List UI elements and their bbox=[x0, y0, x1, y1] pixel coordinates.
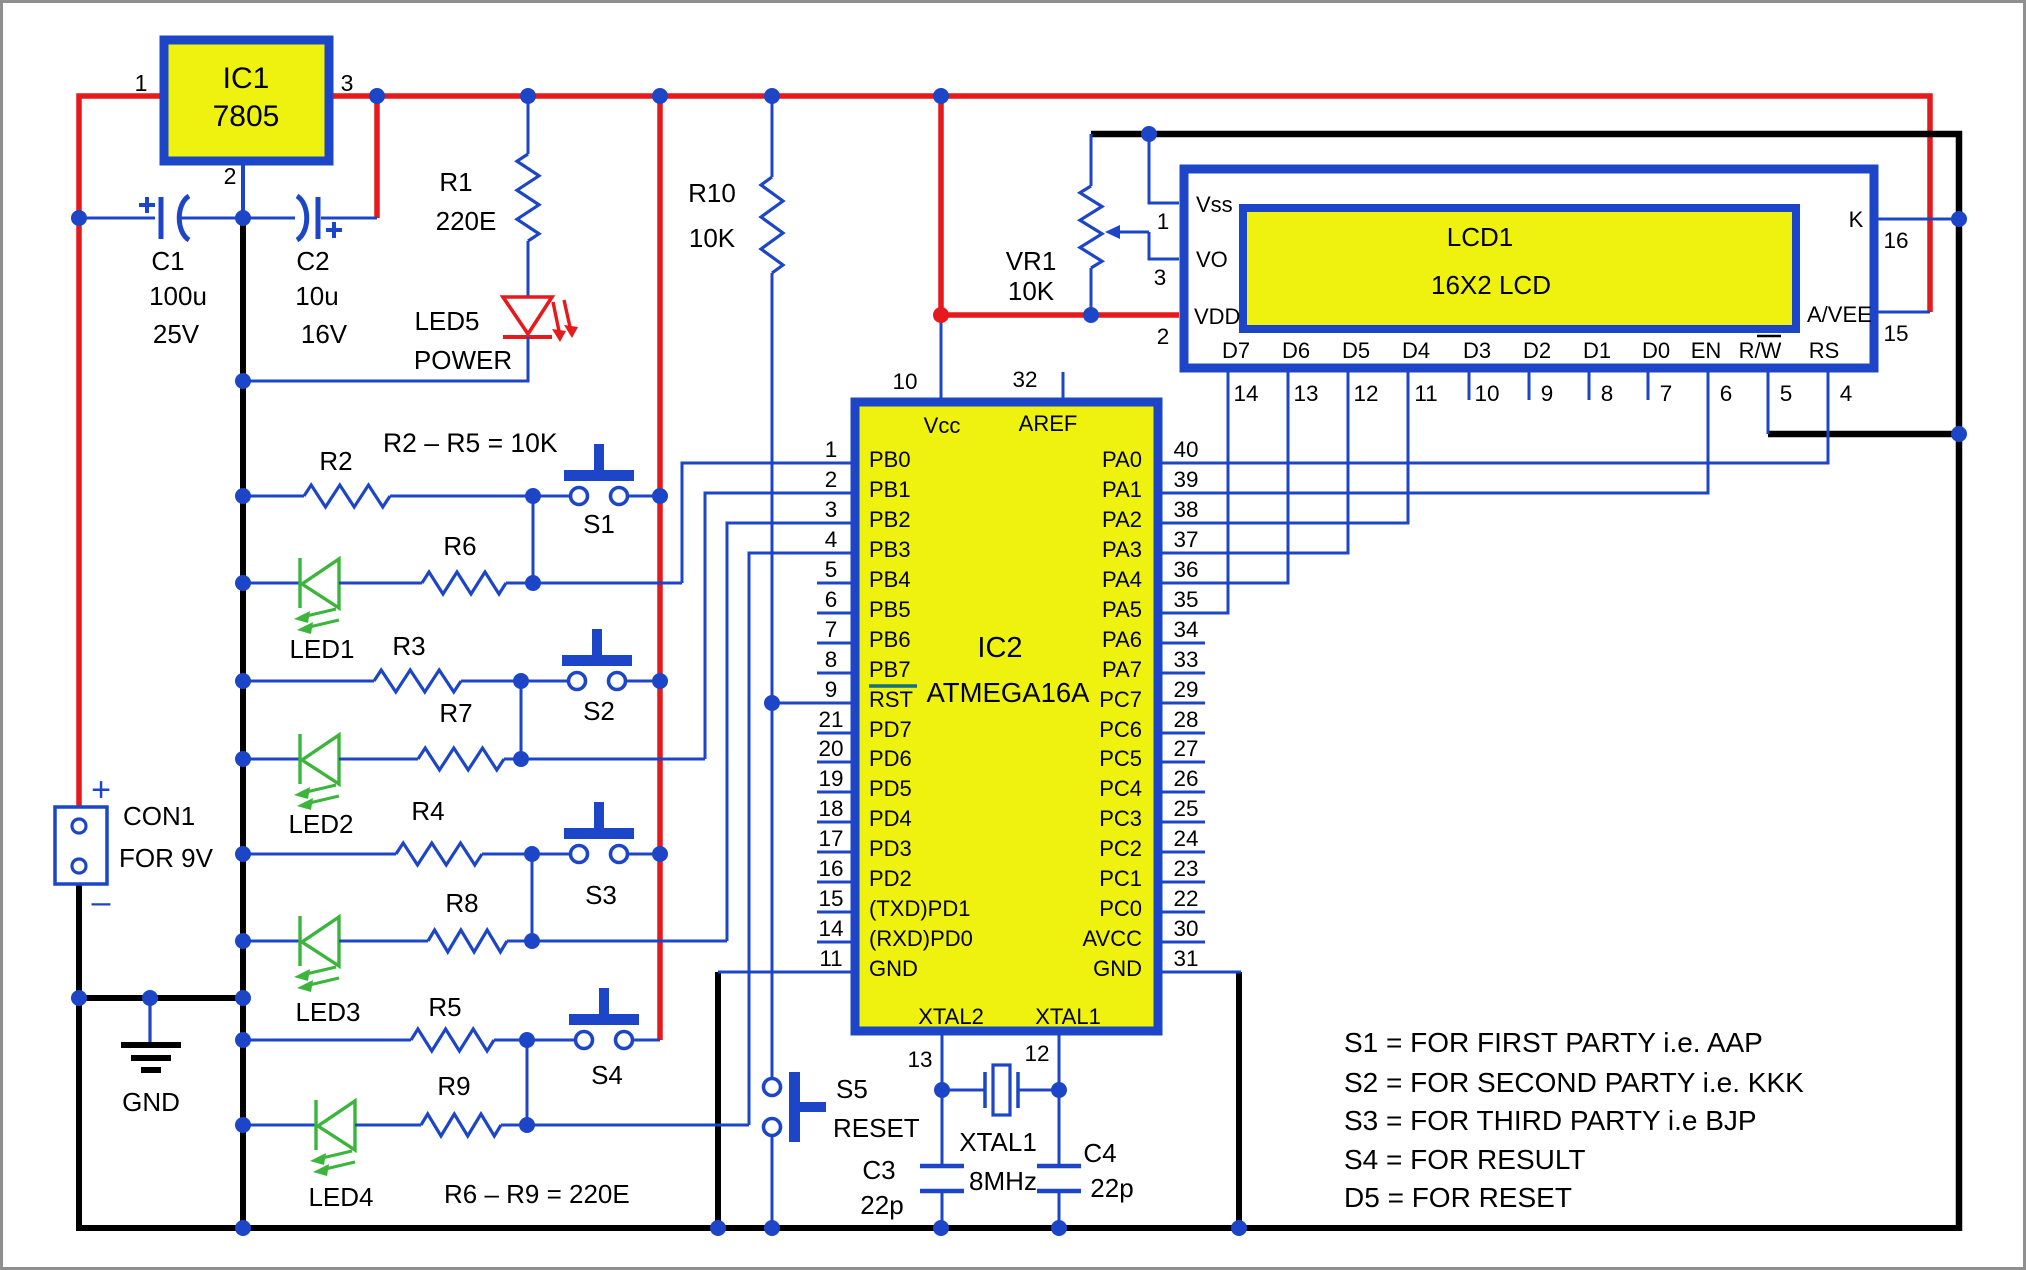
node dots crystal bbox=[934, 1082, 950, 1098]
svg-text:20: 20 bbox=[818, 736, 843, 761]
wire C2 to +5V bbox=[374, 96, 380, 218]
svg-text:PA2: PA2 bbox=[1102, 507, 1142, 532]
svg-text:15: 15 bbox=[1883, 321, 1908, 346]
svg-text:16: 16 bbox=[818, 856, 843, 881]
wire LCD D1 stub bbox=[1588, 368, 1591, 400]
svg-text:D2: D2 bbox=[1523, 338, 1551, 363]
wire LCD D3 stub bbox=[1468, 368, 1471, 400]
svg-text:18: 18 bbox=[818, 796, 843, 821]
svg-text:39: 39 bbox=[1173, 467, 1198, 492]
svg-text:15: 15 bbox=[818, 886, 843, 911]
svg-text:38: 38 bbox=[1173, 497, 1198, 522]
wire LCD D4 to PA2 bbox=[1158, 368, 1408, 523]
resistor R8 220E bbox=[339, 888, 727, 952]
svg-text:22p: 22p bbox=[1090, 1173, 1133, 1203]
svg-text:C4: C4 bbox=[1083, 1138, 1116, 1168]
svg-text:7: 7 bbox=[825, 617, 838, 642]
svg-text:EN: EN bbox=[1691, 338, 1722, 363]
svg-text:4: 4 bbox=[825, 527, 838, 552]
wire S2 junction down bbox=[520, 681, 523, 759]
svg-text:PC2: PC2 bbox=[1099, 836, 1142, 861]
wire R10 to RST and S5 bbox=[771, 273, 774, 1079]
wire IC1 pin2 bbox=[241, 161, 245, 218]
svg-text:30: 30 bbox=[1173, 916, 1198, 941]
wire S5 to ground bbox=[771, 1136, 774, 1228]
wire LCD D6 to PA4 bbox=[1158, 368, 1288, 583]
svg-text:PD6: PD6 bbox=[869, 746, 912, 771]
wire LCD D7 to PA5 bbox=[1158, 368, 1228, 613]
wire RST pin9 bbox=[772, 702, 855, 705]
wire LCD EN to PA1 bbox=[1158, 368, 1708, 493]
wire IC2 GND pin31 down bbox=[1236, 972, 1242, 1228]
svg-text:25: 25 bbox=[1173, 796, 1198, 821]
wire LCD R/W down to ground wire bbox=[1767, 368, 1770, 434]
node dots on +5V rail bbox=[369, 88, 949, 104]
wire AREF pin32 bbox=[1062, 372, 1065, 402]
svg-text:D6: D6 bbox=[1282, 338, 1310, 363]
svg-text:PC4: PC4 bbox=[1099, 776, 1142, 801]
svg-text:R1: R1 bbox=[439, 167, 472, 197]
svg-text:PC0: PC0 bbox=[1099, 896, 1142, 921]
svg-text:8: 8 bbox=[1601, 381, 1614, 406]
switch S1 bbox=[564, 444, 660, 539]
wire LCD D0 stub bbox=[1647, 368, 1650, 400]
svg-text:POWER: POWER bbox=[414, 345, 512, 375]
resistor R4 10K bbox=[243, 796, 569, 865]
svg-text:A/VEE: A/VEE bbox=[1807, 302, 1872, 327]
svg-text:27: 27 bbox=[1173, 736, 1198, 761]
svg-text:10u: 10u bbox=[295, 281, 338, 311]
wire LED5 to GND bus bbox=[243, 337, 528, 381]
svg-text:Vss: Vss bbox=[1196, 192, 1233, 217]
capacitor C4 22p bbox=[1037, 1090, 1134, 1228]
wire PB1 to S2/R7 junction bbox=[705, 493, 855, 759]
svg-text:LED2: LED2 bbox=[288, 809, 353, 839]
svg-text:16V: 16V bbox=[301, 319, 348, 349]
svg-text:LED3: LED3 bbox=[295, 997, 360, 1027]
svg-text:13: 13 bbox=[1293, 381, 1318, 406]
svg-text:IC2: IC2 bbox=[977, 632, 1022, 664]
svg-text:S2: S2 bbox=[583, 696, 615, 726]
svg-text:21: 21 bbox=[818, 707, 843, 732]
wire C1/C2 row bbox=[79, 217, 377, 220]
svg-text:11: 11 bbox=[819, 946, 842, 971]
svg-text:LED1: LED1 bbox=[289, 634, 354, 664]
svg-text:10: 10 bbox=[892, 369, 917, 394]
wire GND bus vertical bbox=[240, 215, 246, 1231]
svg-text:R4: R4 bbox=[411, 796, 444, 826]
svg-text:R/W: R/W bbox=[1739, 338, 1782, 363]
svg-text:1: 1 bbox=[1157, 209, 1170, 234]
svg-text:36: 36 bbox=[1173, 557, 1198, 582]
svg-text:PA6: PA6 bbox=[1102, 627, 1142, 652]
IC2 unconnected left pin stubs bbox=[817, 583, 855, 942]
wire R1 to LED5 bbox=[527, 241, 530, 297]
wire +5V feed to switches bbox=[657, 96, 663, 1040]
svg-text:S2 = FOR SECOND PARTY i.e. KK: S2 = FOR SECOND PARTY i.e. KKK bbox=[1344, 1067, 1804, 1098]
svg-text:PB4: PB4 bbox=[869, 567, 911, 592]
wire LCD D5 to PA3 bbox=[1158, 368, 1348, 553]
wire PB3 to S4/R9 junction bbox=[749, 553, 855, 1125]
svg-text:S4: S4 bbox=[591, 1060, 623, 1090]
svg-text:8MHz: 8MHz bbox=[969, 1166, 1037, 1196]
capacitor C1 100u 25V bbox=[139, 196, 207, 349]
switch S3 bbox=[564, 802, 660, 910]
svg-text:PC7: PC7 bbox=[1099, 687, 1142, 712]
LED LED5 POWER (red) bbox=[414, 297, 578, 375]
capacitor C2 10u 16V bbox=[295, 196, 348, 349]
svg-text:3: 3 bbox=[341, 70, 354, 96]
svg-text:PA5: PA5 bbox=[1102, 597, 1142, 622]
switch S5 RESET bbox=[764, 1072, 920, 1143]
wire R1 top bbox=[527, 96, 530, 154]
wire R10 top bbox=[771, 96, 774, 177]
svg-text:R9: R9 bbox=[437, 1071, 470, 1101]
svg-text:100u: 100u bbox=[149, 281, 207, 311]
IC2 left pin names and numbers bbox=[818, 437, 972, 981]
svg-text:PD7: PD7 bbox=[869, 717, 912, 742]
svg-text:ATMEGA16A: ATMEGA16A bbox=[926, 677, 1090, 708]
svg-text:D1: D1 bbox=[1583, 338, 1611, 363]
wire IC2 GND pin31 bbox=[1158, 971, 1241, 974]
svg-text:16X2 LCD: 16X2 LCD bbox=[1431, 270, 1551, 300]
svg-text:40: 40 bbox=[1173, 437, 1198, 462]
svg-text:22p: 22p bbox=[860, 1190, 903, 1220]
svg-text:D3: D3 bbox=[1463, 338, 1491, 363]
svg-text:+: + bbox=[91, 771, 111, 809]
resistor R6 220E bbox=[339, 531, 682, 594]
svg-text:S1: S1 bbox=[583, 509, 615, 539]
svg-text:31: 31 bbox=[1173, 946, 1198, 971]
resistor R7 220E bbox=[339, 698, 705, 770]
svg-text:32: 32 bbox=[1012, 367, 1037, 392]
node dots power and lcd bbox=[933, 126, 1967, 442]
wire VR1 bottom to VDD rail bbox=[1090, 268, 1093, 315]
svg-text:10: 10 bbox=[1474, 381, 1499, 406]
svg-text:1: 1 bbox=[825, 437, 838, 462]
svg-text:PB1: PB1 bbox=[869, 477, 911, 502]
svg-text:C2: C2 bbox=[296, 246, 329, 276]
wire +5V to Vcc and LCD VDD bbox=[941, 96, 1179, 315]
wire LCD A/VEE to +5V bbox=[1874, 311, 1930, 314]
svg-text:PA7: PA7 bbox=[1102, 657, 1142, 682]
svg-text:16: 16 bbox=[1883, 228, 1908, 253]
svg-text:PC5: PC5 bbox=[1099, 746, 1142, 771]
svg-text:C3: C3 bbox=[862, 1155, 895, 1185]
IC2 unconnected right pin stubs bbox=[1158, 643, 1205, 942]
wire XTAL1 pin12 bbox=[1058, 1031, 1061, 1090]
connector CON1 FOR 9V bbox=[55, 771, 214, 921]
svg-text:S4 = FOR RESULT: S4 = FOR RESULT bbox=[1344, 1144, 1585, 1175]
svg-text:PD3: PD3 bbox=[869, 836, 912, 861]
svg-text:3: 3 bbox=[825, 497, 838, 522]
svg-text:1: 1 bbox=[135, 70, 148, 96]
svg-text:R8: R8 bbox=[445, 888, 478, 918]
svg-text:R7: R7 bbox=[439, 698, 472, 728]
svg-text:Vcc: Vcc bbox=[924, 413, 961, 438]
node dots GND bus bbox=[71, 210, 251, 1236]
svg-text:D5 = FOR RESET: D5 = FOR RESET bbox=[1344, 1182, 1572, 1213]
LED LED1 bbox=[243, 558, 355, 664]
wire LCD RS to PA0 bbox=[1158, 368, 1828, 463]
svg-text:13: 13 bbox=[907, 1047, 932, 1072]
resistor R2 10K bbox=[243, 446, 569, 507]
capacitor C3 22p bbox=[860, 1090, 964, 1228]
resistor R5 10K bbox=[243, 992, 574, 1051]
svg-text:PB5: PB5 bbox=[869, 597, 911, 622]
svg-text:XTAL1: XTAL1 bbox=[1035, 1004, 1101, 1029]
svg-text:PC6: PC6 bbox=[1099, 717, 1142, 742]
svg-text:D0: D0 bbox=[1642, 338, 1670, 363]
svg-text:RST: RST bbox=[869, 687, 913, 712]
wire LCD top ground bbox=[1091, 134, 1959, 1231]
svg-text:S5: S5 bbox=[836, 1074, 868, 1104]
svg-text:S3 = FOR THIRD PARTY i.e BJP: S3 = FOR THIRD PARTY i.e BJP bbox=[1344, 1105, 1757, 1136]
svg-text:S1 = FOR FIRST PARTY i.e. AAP: S1 = FOR FIRST PARTY i.e. AAP bbox=[1344, 1027, 1763, 1058]
wire IC2 GND pin11 bbox=[718, 971, 855, 974]
svg-text:GND: GND bbox=[1093, 956, 1142, 981]
svg-text:PA3: PA3 bbox=[1102, 537, 1142, 562]
crystal XTAL1 8MHz bbox=[942, 1065, 1059, 1196]
svg-text:FOR 9V: FOR 9V bbox=[119, 843, 214, 873]
svg-text:PB6: PB6 bbox=[869, 627, 911, 652]
legend text bbox=[1344, 1027, 1804, 1213]
wire S1 junction down bbox=[532, 496, 535, 583]
svg-text:8: 8 bbox=[825, 647, 838, 672]
svg-text:19: 19 bbox=[818, 766, 843, 791]
switch S2 bbox=[562, 629, 660, 726]
svg-text:10K: 10K bbox=[689, 223, 736, 253]
svg-text:LED4: LED4 bbox=[308, 1182, 373, 1212]
svg-text:PD5: PD5 bbox=[869, 776, 912, 801]
wire XTAL2 pin13 bbox=[941, 1031, 944, 1090]
resistor R3 10K bbox=[243, 631, 567, 692]
wire LCD D2 stub bbox=[1528, 368, 1531, 400]
svg-text:S3: S3 bbox=[585, 880, 617, 910]
wire CON1 minus to bottom rail bbox=[79, 884, 1959, 1228]
svg-text:PC1: PC1 bbox=[1099, 866, 1142, 891]
svg-text:R10: R10 bbox=[688, 178, 736, 208]
wire 9V input from CON1 to IC1 pin1 bbox=[79, 96, 160, 807]
wire S3 junction down bbox=[531, 854, 534, 941]
node RST junction bbox=[764, 695, 780, 711]
wire LCD R/W to ground bbox=[1768, 431, 1959, 438]
svg-text:R5: R5 bbox=[428, 992, 461, 1022]
potentiometer VR1 10K bbox=[1006, 186, 1149, 306]
wire LCD K to ground bbox=[1874, 218, 1959, 221]
svg-text:5: 5 bbox=[1780, 381, 1793, 406]
wire LCD Vss to ground bbox=[1149, 134, 1179, 203]
svg-text:2: 2 bbox=[825, 467, 838, 492]
svg-text:22: 22 bbox=[1173, 886, 1198, 911]
svg-text:PA4: PA4 bbox=[1102, 567, 1142, 592]
svg-text:7805: 7805 bbox=[213, 100, 280, 133]
svg-text:–: – bbox=[92, 883, 111, 921]
svg-text:12: 12 bbox=[1353, 381, 1378, 406]
svg-text:(TXD)PD1: (TXD)PD1 bbox=[869, 896, 970, 921]
svg-text:LED5: LED5 bbox=[414, 306, 479, 336]
svg-text:25V: 25V bbox=[153, 319, 200, 349]
LED LED4 bbox=[243, 1100, 374, 1212]
wire VR1 top to ground wire bbox=[1090, 134, 1093, 186]
wire VR1 wiper to LCD VO bbox=[1149, 232, 1179, 259]
svg-text:9: 9 bbox=[1541, 381, 1554, 406]
svg-text:35: 35 bbox=[1173, 587, 1198, 612]
svg-text:D7: D7 bbox=[1222, 338, 1250, 363]
display LCD1 16X2 LCD bbox=[1184, 169, 1874, 368]
svg-text:9: 9 bbox=[825, 677, 838, 702]
svg-text:GND: GND bbox=[122, 1087, 180, 1117]
svg-text:PB3: PB3 bbox=[869, 537, 911, 562]
svg-text:GND: GND bbox=[869, 956, 918, 981]
svg-text:220E: 220E bbox=[436, 206, 497, 236]
svg-text:2: 2 bbox=[1157, 324, 1170, 349]
svg-text:37: 37 bbox=[1173, 527, 1198, 552]
svg-text:R6 – R9 = 220E: R6 – R9 = 220E bbox=[444, 1179, 630, 1209]
wire +5V rail across top bbox=[333, 96, 1930, 312]
svg-text:12: 12 bbox=[1024, 1041, 1049, 1066]
svg-text:R3: R3 bbox=[392, 631, 425, 661]
LCD pin numbers bbox=[1154, 209, 1909, 406]
svg-text:RS: RS bbox=[1809, 338, 1840, 363]
svg-text:PB2: PB2 bbox=[869, 507, 911, 532]
wire GND tap bbox=[76, 995, 243, 1001]
svg-text:33: 33 bbox=[1173, 647, 1198, 672]
svg-text:C1: C1 bbox=[151, 246, 184, 276]
svg-text:IC1: IC1 bbox=[223, 62, 270, 95]
resistor R10 10K bbox=[688, 177, 783, 273]
svg-text:D5: D5 bbox=[1342, 338, 1370, 363]
svg-text:D4: D4 bbox=[1402, 338, 1430, 363]
svg-text:XTAL2: XTAL2 bbox=[918, 1004, 984, 1029]
svg-text:CON1: CON1 bbox=[123, 801, 195, 831]
wire PB0 to S1/R6 junction bbox=[682, 463, 855, 583]
svg-text:17: 17 bbox=[818, 826, 843, 851]
svg-text:R6: R6 bbox=[443, 531, 476, 561]
svg-text:VO: VO bbox=[1196, 247, 1228, 272]
svg-text:VDD: VDD bbox=[1194, 304, 1240, 329]
ground symbol GND bbox=[121, 998, 181, 1117]
svg-text:7: 7 bbox=[1660, 381, 1673, 406]
LED LED3 bbox=[243, 916, 361, 1027]
svg-text:RESET: RESET bbox=[833, 1113, 920, 1143]
svg-text:26: 26 bbox=[1173, 766, 1198, 791]
svg-text:14: 14 bbox=[818, 916, 843, 941]
switch S4 bbox=[569, 988, 660, 1090]
svg-text:6: 6 bbox=[1720, 381, 1733, 406]
svg-text:PC3: PC3 bbox=[1099, 806, 1142, 831]
LED LED2 bbox=[243, 734, 354, 839]
svg-text:28: 28 bbox=[1173, 707, 1198, 732]
svg-text:PD2: PD2 bbox=[869, 866, 912, 891]
svg-text:PD4: PD4 bbox=[869, 806, 912, 831]
svg-text:AREF: AREF bbox=[1019, 411, 1078, 436]
svg-text:11: 11 bbox=[1414, 381, 1437, 406]
svg-text:XTAL1: XTAL1 bbox=[959, 1127, 1037, 1157]
svg-text:2: 2 bbox=[224, 163, 237, 189]
svg-text:PA1: PA1 bbox=[1102, 477, 1142, 502]
wire PB2 to S3/R8 junction bbox=[727, 523, 855, 941]
svg-text:10K: 10K bbox=[1008, 276, 1055, 306]
svg-text:29: 29 bbox=[1173, 677, 1198, 702]
svg-text:PB0: PB0 bbox=[869, 447, 911, 472]
svg-text:PA0: PA0 bbox=[1102, 447, 1142, 472]
wire Vcc pin10 bbox=[940, 315, 943, 402]
svg-text:34: 34 bbox=[1173, 617, 1198, 642]
svg-text:6: 6 bbox=[825, 587, 838, 612]
svg-text:AVCC: AVCC bbox=[1083, 926, 1143, 951]
wire IC2 GND pin11 down bbox=[715, 972, 721, 1228]
wire S4 junction down bbox=[526, 1040, 529, 1125]
microcontroller IC2 ATMEGA16A bbox=[855, 402, 1158, 1031]
svg-text:5: 5 bbox=[825, 557, 838, 582]
svg-text:R2 – R5 = 10K: R2 – R5 = 10K bbox=[383, 428, 558, 458]
svg-text:23: 23 bbox=[1173, 856, 1198, 881]
svg-text:14: 14 bbox=[1233, 381, 1258, 406]
svg-text:(RXD)PD0: (RXD)PD0 bbox=[869, 926, 973, 951]
regulator IC1 7805 bbox=[135, 40, 354, 189]
svg-text:R2: R2 bbox=[319, 446, 352, 476]
node dots switch junctions bbox=[513, 488, 668, 1133]
node dots bottom rail bbox=[710, 1220, 1247, 1236]
resistor R9 220E bbox=[355, 1071, 749, 1136]
svg-text:K: K bbox=[1849, 207, 1864, 232]
LCD data pin labels bbox=[1222, 336, 1839, 363]
svg-text:24: 24 bbox=[1173, 826, 1198, 851]
svg-text:PB7: PB7 bbox=[869, 657, 911, 682]
svg-text:3: 3 bbox=[1154, 265, 1167, 290]
resistor R1 220E bbox=[436, 154, 539, 241]
svg-text:LCD1: LCD1 bbox=[1447, 222, 1513, 252]
IC2 right pin names and numbers bbox=[1083, 437, 1199, 981]
svg-text:4: 4 bbox=[1840, 381, 1853, 406]
svg-text:VR1: VR1 bbox=[1006, 246, 1057, 276]
